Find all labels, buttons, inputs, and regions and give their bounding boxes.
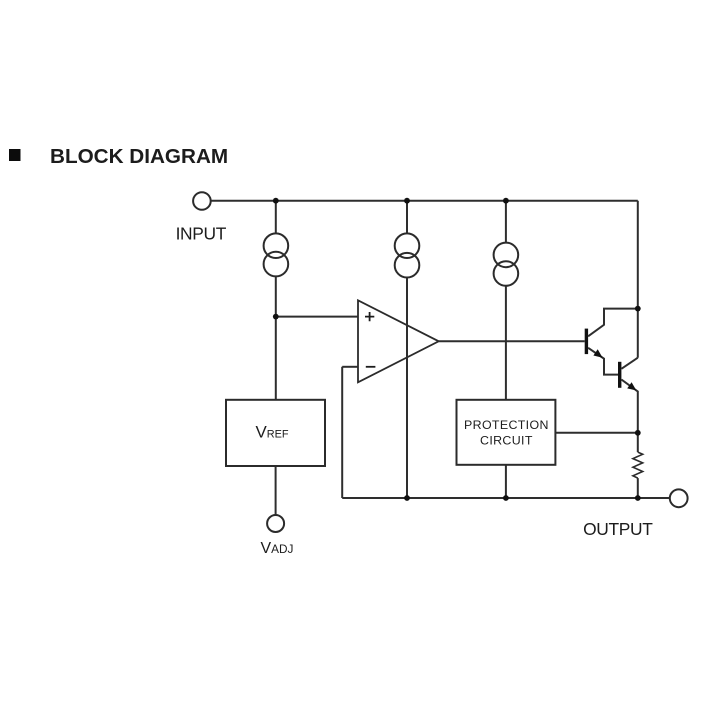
current source I2 — [395, 233, 420, 277]
node: top rail / CS3 — [503, 198, 509, 204]
node: bottom rail / CS2 — [404, 495, 410, 501]
svg-text:BLOCK DIAGRAM: BLOCK DIAGRAM — [50, 145, 228, 168]
transistor Q2 — [618, 358, 638, 433]
node: Q1 collector / right rail — [635, 306, 641, 312]
node: bottom rail / protection — [503, 495, 509, 501]
op-amp U1 — [358, 300, 439, 382]
node: top rail / CS1 — [273, 198, 279, 204]
current source I3 — [494, 243, 519, 286]
node: protection output / emitter — [635, 430, 641, 436]
svg-text:VADJ: VADJ — [261, 540, 294, 557]
wire: top rail — [211, 200, 638, 202]
node: top rail / CS2 — [404, 198, 410, 204]
current source I1 — [264, 233, 289, 276]
title bullet square — [9, 149, 21, 161]
svg-text:OUTPUT: OUTPUT — [583, 519, 653, 539]
resistor R1 — [633, 452, 643, 478]
terminal INPUT — [193, 192, 211, 210]
PROTECTION CIRCUIT box — [457, 400, 556, 465]
wire: feedback vertical — [341, 367, 343, 498]
transistor Q1 — [585, 309, 638, 375]
svg-text:CIRCUIT: CIRCUIT — [480, 434, 533, 448]
wire: CS3 drop to protection box — [505, 286, 507, 400]
wire: CS2 drop through op-amp to bottom rail — [406, 278, 408, 499]
node: bottom rail / resistor — [635, 495, 641, 501]
node: plus input branch — [273, 314, 279, 320]
wire: CS1 upper stub — [275, 201, 277, 234]
wire: CS2 upper stub — [406, 201, 408, 234]
wire: right rail down to Q2 collector — [637, 201, 639, 358]
wire: VREF to VADJ — [275, 466, 277, 515]
wire: protection box bottom to rail — [505, 465, 507, 498]
wire: plus input from node — [276, 316, 358, 318]
wire: CS3 upper stub — [505, 201, 507, 243]
terminal OUTPUT — [670, 489, 688, 507]
VREF box — [226, 400, 325, 466]
wire: bottom rail — [342, 497, 670, 499]
wire: protection output to emitter node — [555, 432, 637, 434]
wire: minus input — [342, 366, 358, 368]
svg-text:PROTECTION: PROTECTION — [464, 418, 549, 432]
wire: op-amp output to Q1 base — [439, 340, 585, 342]
wire: resistor to bottom rail — [637, 478, 639, 498]
wire: CS1 lower drop to VREF — [275, 276, 277, 399]
terminal VADJ — [267, 515, 284, 532]
svg-text:INPUT: INPUT — [176, 224, 227, 244]
wire: emitter node to resistor — [637, 433, 639, 452]
